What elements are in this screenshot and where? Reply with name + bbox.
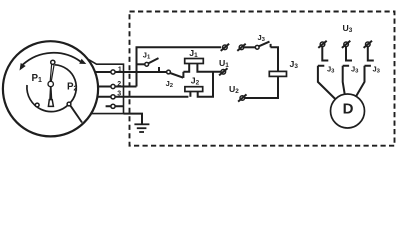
svg-text:U2: U2 xyxy=(229,84,239,95)
svg-text:3: 3 xyxy=(117,90,121,97)
svg-text:U1: U1 xyxy=(219,58,229,69)
svg-text:P1: P1 xyxy=(32,73,43,84)
svg-text:U3: U3 xyxy=(343,23,353,34)
svg-text:J3: J3 xyxy=(290,59,299,70)
svg-text:J1: J1 xyxy=(189,48,198,59)
svg-text:D: D xyxy=(343,100,354,117)
svg-text:1: 1 xyxy=(118,66,122,73)
svg-text:J2: J2 xyxy=(166,79,174,89)
svg-text:2: 2 xyxy=(117,81,121,88)
svg-text:J3: J3 xyxy=(373,65,381,75)
svg-text:J3: J3 xyxy=(351,65,359,75)
svg-text:J1: J1 xyxy=(143,51,151,61)
svg-text:J3: J3 xyxy=(327,65,335,75)
svg-text:J3: J3 xyxy=(258,33,266,43)
svg-text:J2: J2 xyxy=(191,76,200,87)
